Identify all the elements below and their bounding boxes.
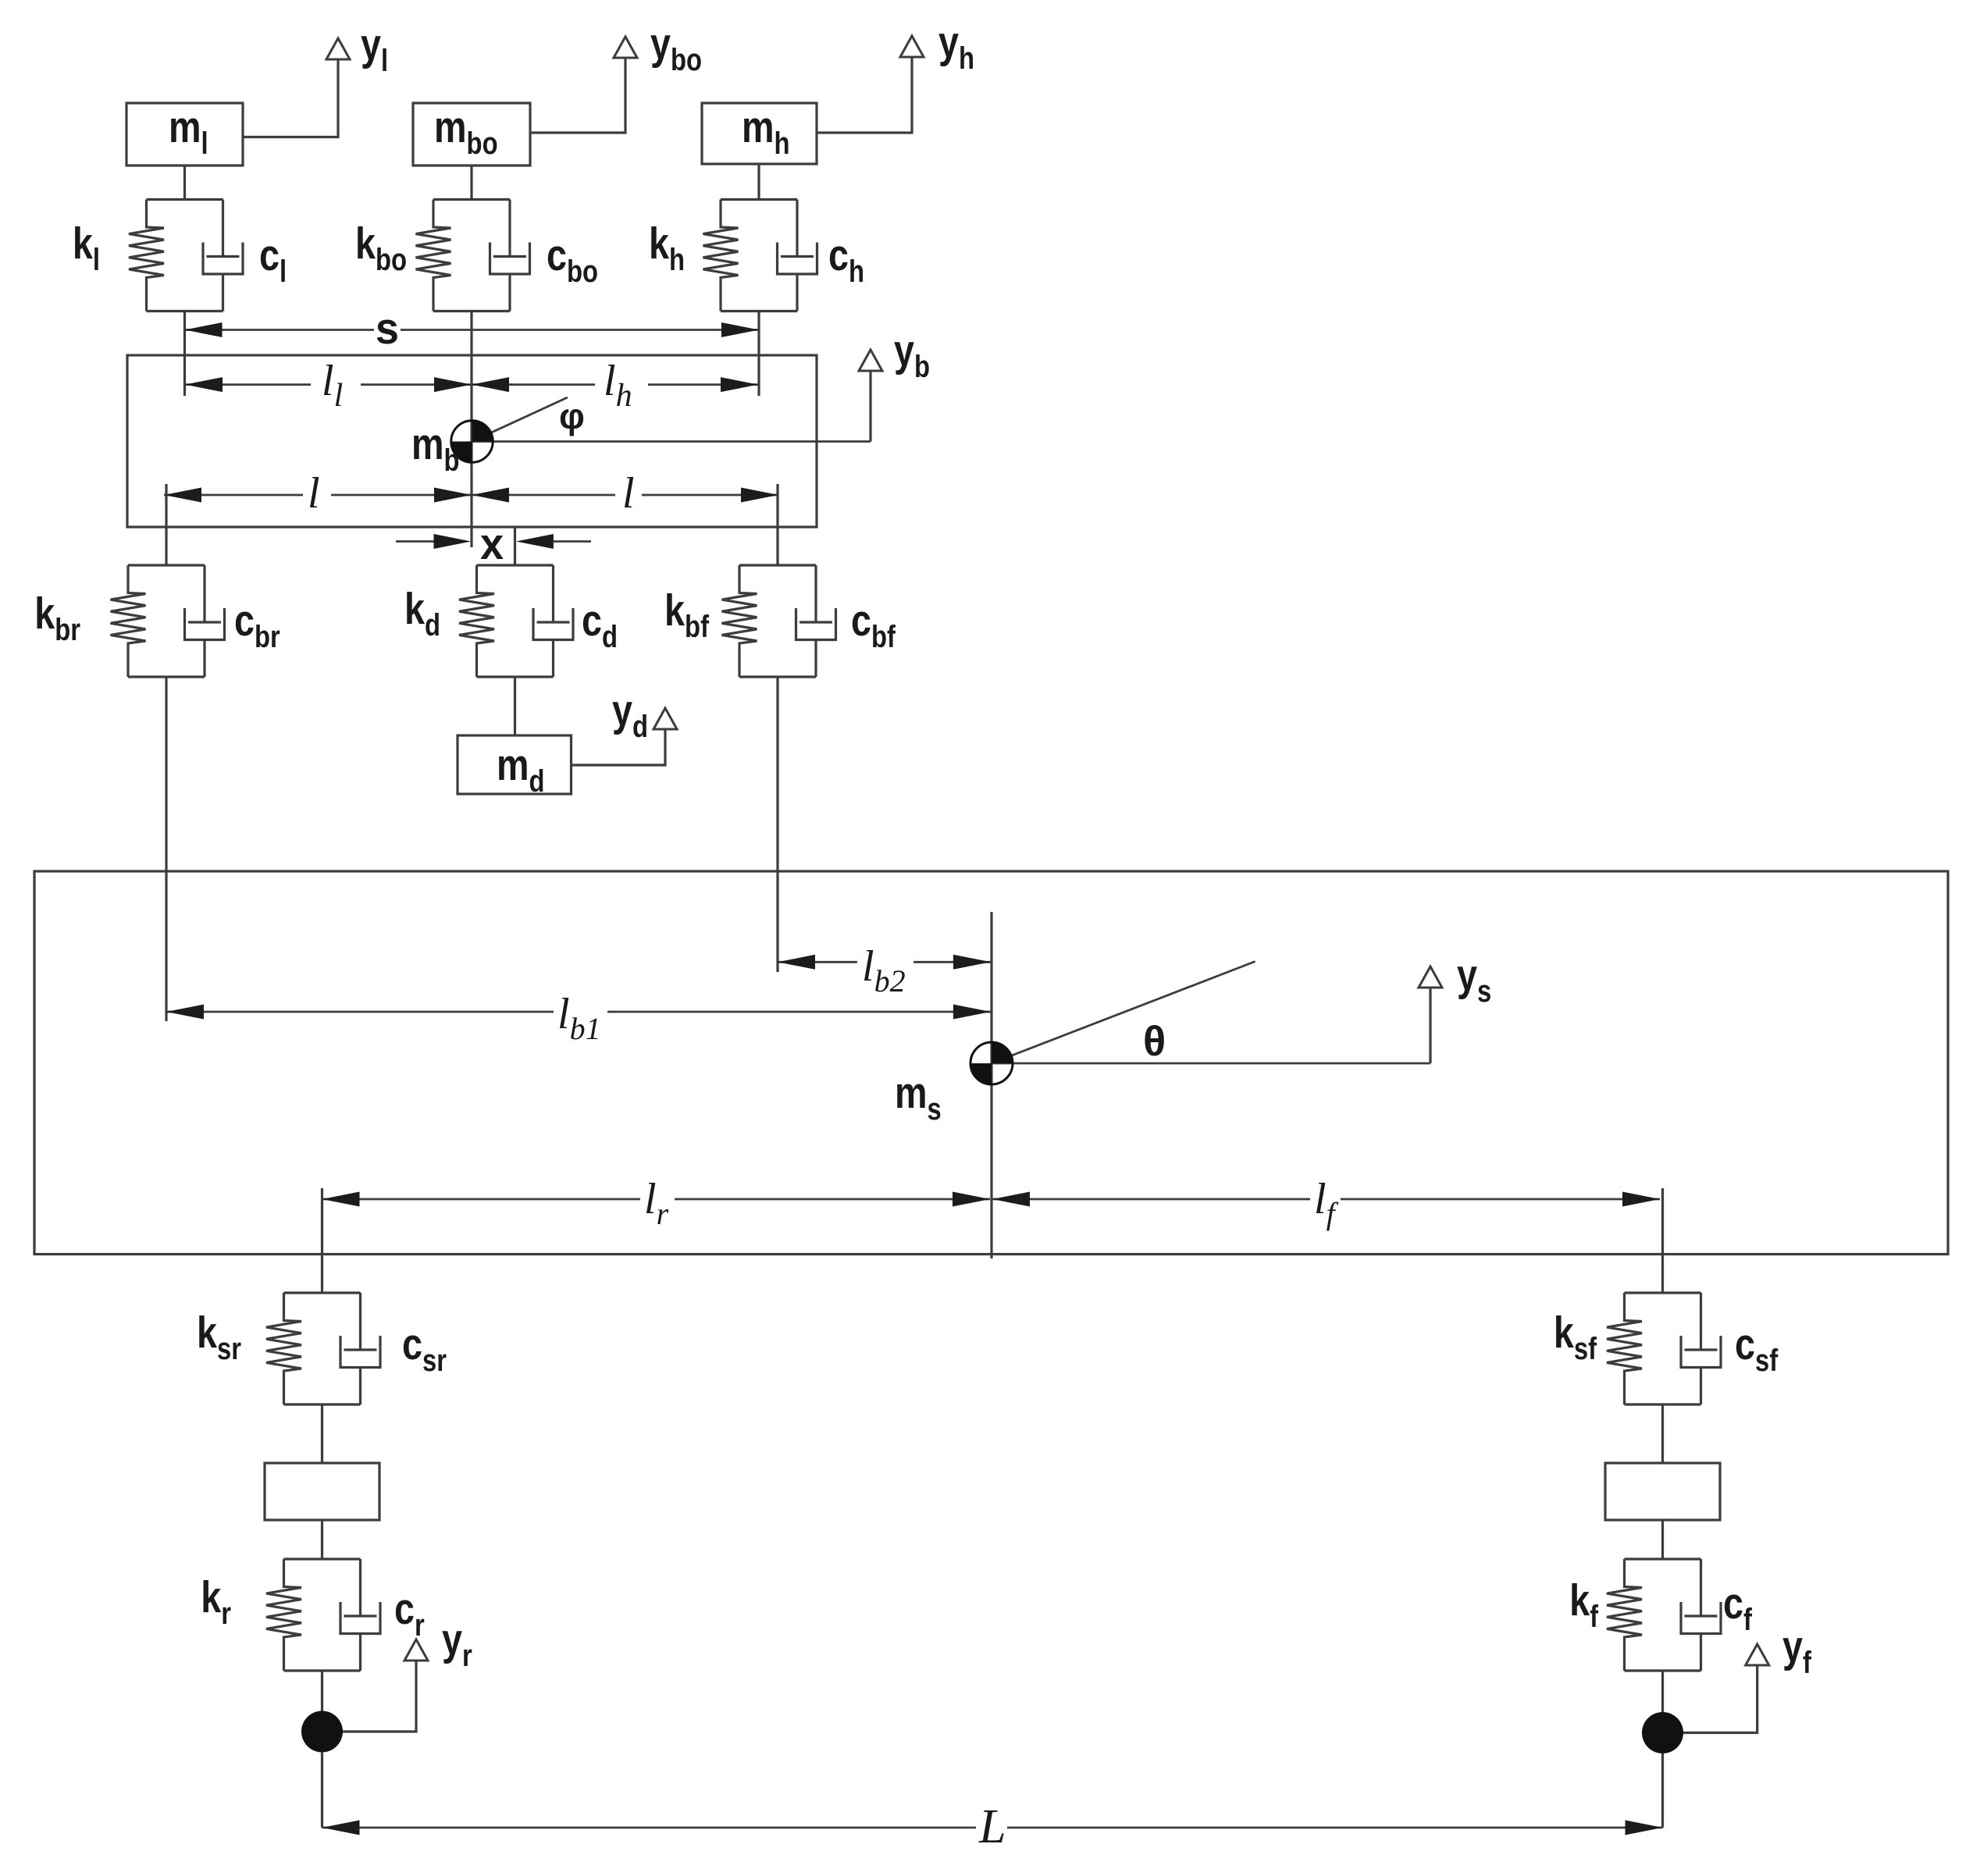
chassis box (m_s) (34, 871, 1948, 1255)
damper c_d (533, 565, 573, 677)
wire m_l to k_l unit (183, 166, 186, 200)
spring-damper unit k_sf/c_sf frame (1625, 1293, 1701, 1404)
dimension l_b2 line (778, 961, 857, 963)
svg-text:l: l (622, 469, 635, 518)
svg-text:l: l (308, 469, 320, 518)
arrow y_h (900, 36, 924, 57)
spring k_r (266, 1559, 301, 1671)
spring k_f (1607, 1559, 1642, 1671)
wire y_f arrow (1683, 1666, 1757, 1733)
damper c_br (185, 565, 225, 677)
spring-damper unit k_bf/c_bf frame (739, 565, 816, 677)
spring k_sf (1607, 1293, 1642, 1404)
mass m_bo box (413, 103, 530, 166)
mass m_d box (458, 735, 572, 794)
wire k_sf to front axle box (1661, 1404, 1664, 1463)
wire front contact to L dim (1661, 1753, 1664, 1828)
wire k_h unit to body (757, 311, 760, 397)
spring k_h (703, 200, 739, 311)
wire m_bo to k_bo unit (470, 166, 472, 200)
dimension l_r line (322, 1198, 641, 1201)
rear wheel contact point (301, 1711, 343, 1753)
dimension l_f line (992, 1198, 1310, 1201)
arrow y_f (1746, 1644, 1769, 1665)
phi angle line (472, 397, 568, 442)
svg-text:s: s (376, 304, 399, 354)
wire k_bf to chassis (776, 677, 778, 972)
spring-damper unit k_f/c_f frame (1625, 1559, 1701, 1671)
svg-text:x: x (480, 519, 504, 569)
damper c_sr (340, 1293, 380, 1404)
tick k_bf above body bottom (776, 484, 778, 565)
tick rear suspension (321, 1188, 323, 1293)
wire y_r arrow (343, 1661, 416, 1732)
spring-damper unit k_sr/c_sr frame (284, 1293, 361, 1404)
cog m_b horizontal reference line (472, 440, 871, 443)
dimension x line (396, 540, 434, 543)
wire front axle to k_f (1661, 1520, 1664, 1559)
svg-text:φ: φ (559, 396, 585, 436)
wire m_h to k_h unit (757, 164, 760, 200)
spring-damper unit k_l/c_l frame (147, 200, 223, 311)
arrow y_b (859, 350, 882, 371)
dimension s line (185, 329, 375, 331)
wire k_bo unit through body to x dim (470, 311, 472, 548)
spring-damper unit k_d/c_d frame (477, 565, 554, 677)
theta angle line (992, 962, 1255, 1064)
damper c_h (778, 200, 817, 311)
damper c_bf (796, 565, 836, 677)
wire k_sr to rear axle box (321, 1404, 323, 1463)
cog m_s horizontal reference line (992, 1063, 1430, 1065)
arrow y_r (404, 1639, 428, 1661)
tick front suspension (1661, 1188, 1664, 1293)
dimension l_h line (472, 383, 595, 386)
mass m_l box (126, 103, 243, 166)
spring-damper unit k_h/c_h frame (721, 200, 797, 311)
damper c_l (203, 200, 243, 311)
dimension l_l line (185, 383, 311, 386)
tractor body box (m_b) (127, 355, 817, 527)
spring k_bo (416, 200, 451, 311)
wire m_bo to y_bo arrow (530, 59, 625, 133)
rear axle box (265, 1463, 379, 1520)
arrow y_s (1419, 966, 1442, 988)
front axle box (1605, 1463, 1720, 1520)
wire k_br to chassis (165, 677, 167, 1021)
wire rear contact to L dim (321, 1752, 323, 1828)
damper c_r (340, 1559, 380, 1671)
wire m_d to y_d arrow (572, 730, 666, 765)
dimension l front line (472, 494, 615, 497)
spring k_br (111, 565, 146, 677)
mass m_h box (702, 103, 817, 164)
dimension l rear line (164, 494, 303, 497)
wire y_b arrow (869, 372, 871, 442)
spring-damper unit k_br/c_br frame (128, 565, 205, 677)
damper c_sf (1681, 1293, 1721, 1404)
spring-damper unit k_r/c_r frame (284, 1559, 361, 1671)
damper c_bo (490, 200, 530, 311)
arrow y_l (326, 38, 350, 59)
wire k_d to m_d (514, 677, 516, 735)
dimension l_b1 line (166, 1011, 554, 1013)
dimension L line (322, 1827, 977, 1829)
wire k_r to rear contact (321, 1671, 323, 1711)
wire k_f to front contact (1661, 1671, 1664, 1712)
m_s center vertical line (990, 912, 992, 1258)
arrow y_d (653, 708, 677, 729)
wire m_l to y_l arrow (243, 60, 338, 137)
wire k_l unit to body (183, 311, 186, 397)
damper c_f (1681, 1559, 1721, 1671)
wire m_h to y_h arrow (817, 58, 912, 133)
wire body to k_d unit (514, 527, 516, 565)
wire rear axle to k_r (321, 1520, 323, 1559)
spring-damper unit k_bo/c_bo frame (433, 200, 510, 311)
spring k_d (459, 565, 494, 677)
dimension x right arrow (516, 534, 554, 549)
spring k_l (129, 200, 164, 311)
front wheel contact point (1642, 1712, 1683, 1753)
svg-text:L: L (978, 1800, 1006, 1853)
svg-text:θ: θ (1143, 1018, 1166, 1065)
center of gravity symbol m_s (970, 1042, 1013, 1084)
arrow y_bo (614, 37, 637, 58)
spring k_sr (266, 1293, 301, 1404)
center of gravity symbol m_b (451, 421, 493, 462)
tick k_br above body bottom (165, 484, 167, 565)
spring k_bf (722, 565, 757, 677)
wire y_s arrow (1429, 988, 1431, 1063)
